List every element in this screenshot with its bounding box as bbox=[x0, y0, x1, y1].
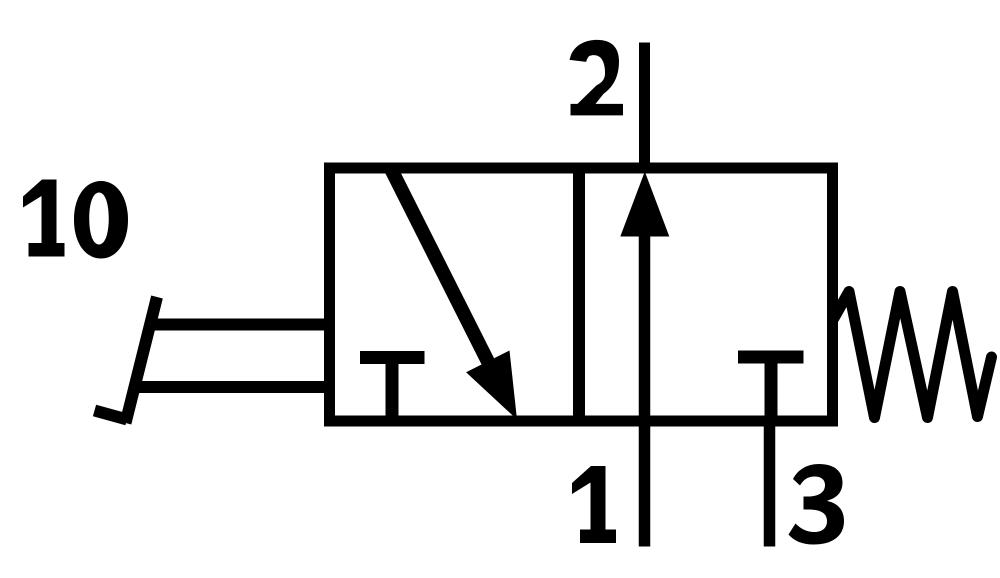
label 10 (pilot signal) digit 1 bbox=[23, 180, 65, 257]
actuator upper rod bbox=[149, 319, 330, 331]
blocked port T symbol (left position) stem bbox=[386, 358, 399, 422]
actuator lower rod bbox=[134, 381, 330, 393]
label 1 (port 1) bbox=[572, 466, 616, 543]
lever foot bbox=[95, 411, 128, 420]
valve body box (two switching positions) bbox=[330, 168, 833, 421]
label 2 (port 2) bbox=[570, 40, 624, 116]
port 2 line (top) bbox=[639, 43, 650, 171]
lever arm bbox=[126, 297, 158, 423]
blocked port T symbol (left position) bar bbox=[360, 351, 425, 364]
diagonal flow arrowhead bbox=[466, 351, 517, 420]
label 10 digit 0 bbox=[74, 181, 128, 259]
blocked port T symbol (right position) bar bbox=[738, 351, 804, 364]
label 3 (port 3) bbox=[789, 464, 845, 545]
diagonal flow arrow shaft (left position) bbox=[391, 168, 506, 396]
port 3 line (bottom) bbox=[764, 421, 776, 547]
port 1 line (bottom) bbox=[639, 421, 651, 547]
flow path arrow 1 to 2 arrowhead bbox=[620, 172, 669, 237]
return spring bbox=[834, 292, 992, 418]
position divider line bbox=[573, 163, 585, 426]
flow path arrow 1 to 2 (right position) shaft bbox=[639, 232, 651, 421]
blocked port T symbol (right position) stem bbox=[765, 357, 778, 421]
